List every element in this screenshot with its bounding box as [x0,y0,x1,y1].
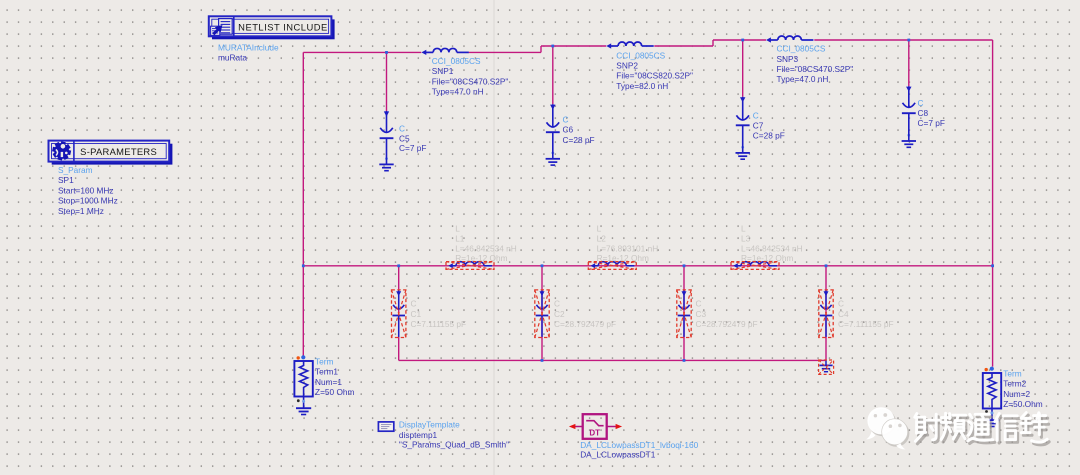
L1 deactivation cross [446,262,494,270]
wire C1 branch vertical [398,266,400,361]
svg-text:C7: C7 [753,121,764,131]
node junction 1 [385,51,388,54]
wire C4 branch vertical [825,266,827,361]
C4 deactivation cross [819,290,833,338]
svg-text:NETLIST INCLUDE: NETLIST INCLUDE [238,22,328,33]
C1 deactivation cross [392,290,406,338]
svg-text:Step=1 MHz: Step=1 MHz [58,206,104,216]
capacitor C8 labels [918,98,945,128]
display-template icon [378,422,393,431]
svg-text:L: L [741,223,746,233]
C3 deactivation cross [677,290,691,338]
ground C8 [902,141,916,147]
node Term2 pin dots [985,367,994,415]
svg-text:C=7.111155 pF: C=7.111155 pF [838,319,894,329]
node junction 2 [551,45,554,48]
wire C2 branch vertical [541,266,543,361]
DT block labels [580,440,698,459]
svg-text:C4: C4 [838,309,849,319]
svg-text:L=46.842534 nH: L=46.842534 nH [455,243,517,253]
wire C6 branch [552,46,554,104]
svg-text:C=28 pF: C=28 pF [753,131,785,141]
termination Term2 labels [1003,368,1043,409]
svg-text:C=28 pF: C=28 pF [563,135,595,145]
svg-text:C5: C5 [399,133,410,143]
svg-text:C: C [563,114,569,124]
svg-text:Num=2: Num=2 [1003,389,1030,399]
svg-text:L: L [597,223,602,233]
capacitor C5 symbol [380,111,394,164]
ground Term2 [984,420,999,426]
netlist-include controller block [209,16,335,39]
svg-text:R=1e-12 Ohm: R=1e-12 Ohm [741,253,793,263]
svg-text:SNP2: SNP2 [616,61,638,71]
node junction 7 [541,264,544,267]
netlist-include icon [211,19,233,36]
node junction 5 [302,264,305,267]
capacitor C4 (deactivated) symbol [820,290,833,337]
ground C6 [546,159,560,165]
display-template labels [399,420,509,450]
node junction 9 [825,264,828,267]
inductor L3 labels (deactivated) [741,223,803,263]
termination Term1 labels [315,356,355,397]
capacitor C1 (deactivated) symbol [392,290,405,337]
faint window splitter line [493,0,495,475]
svg-text:Term1: Term1 [315,367,338,377]
svg-text:S_Param: S_Param [58,165,93,175]
svg-text:L2: L2 [597,233,607,243]
termination Term2 symbol [983,373,1001,420]
svg-text:MURATAInclude: MURATAInclude [218,42,279,52]
svg-text:File="08CS470.S2P": File="08CS470.S2P" [777,64,854,74]
inductor SNP2 symbol [606,42,653,49]
svg-text:C: C [696,299,702,309]
ground C5 [379,164,393,170]
wire C8 branch [908,40,910,86]
svg-text:C: C [554,299,560,309]
wire step 2 [712,40,714,46]
s-parameters controller block [49,141,173,165]
node cap pin dot 2 [551,152,554,155]
wire top rail segment 1b [469,51,541,53]
svg-text:L=46.842534 nH: L=46.842534 nH [741,243,803,253]
wire top rail segment 3b [814,39,992,41]
svg-text:L: L [455,223,460,233]
capacitor C2 (deactivated) symbol [536,290,549,337]
wire right vertical (top rail to Term2) [992,40,994,367]
wire C7 branch [742,40,744,97]
svg-text:C=28.792479 pF: C=28.792479 pF [696,319,758,329]
node Term1 pin dots [297,355,306,403]
node junction 4 [907,39,910,42]
termination Term1 symbol [294,361,312,408]
svg-text:C: C [753,111,759,121]
svg-text:Num=1: Num=1 [315,377,342,387]
inductor L1 labels (deactivated) [455,223,517,263]
svg-text:R=1e-12 Ohm: R=1e-12 Ohm [455,253,507,263]
ground at bottom rail (deactivated) [819,360,832,371]
wire step 1 [540,46,542,52]
svg-text:Z=50 Ohm: Z=50 Ohm [1003,399,1043,409]
svg-text:DA_LCLowpassDT1: DA_LCLowpassDT1 [580,449,656,459]
svg-text:Stop=1000 MHz: Stop=1000 MHz [58,196,118,206]
svg-text:C6: C6 [563,125,574,135]
svg-text:SNP1: SNP1 [432,66,454,76]
ground C7 [736,153,750,159]
capacitor C3 (deactivated) symbol [678,290,691,337]
inductor SNP2 labels [616,50,693,91]
inductor SNP3 symbol [766,36,813,43]
svg-text:L1: L1 [455,233,465,243]
watermark chinese text 射频通信链 (drawn strokes) [915,413,1049,445]
capacitor C4 labels (deactivated) [838,299,894,330]
svg-text:DisplayTemplate: DisplayTemplate [399,420,460,430]
svg-text:L=76.893101 nH: L=76.893101 nH [597,243,659,253]
svg-text:"S_Params_Quad_dB_Smith": "S_Params_Quad_dB_Smith" [399,440,509,450]
node junction 11 [541,359,544,362]
svg-text:CCI_0805CS: CCI_0805CS [432,56,481,66]
svg-text:C: C [838,299,844,309]
wire middle rail [303,265,992,267]
node cap pin dot 1 [385,157,388,160]
capacitor C5 labels [399,124,426,154]
svg-text:C2: C2 [554,309,565,319]
s-parameters gear icon [52,141,71,160]
node cap pin dot 4 [907,134,910,137]
svg-text:muRata: muRata [218,52,247,62]
svg-text:C=7 pF: C=7 pF [399,143,426,153]
op-amp-like DT design block DA_LCLowpassDT1 [569,414,622,439]
svg-text:File="08CS820.S2P": File="08CS820.S2P" [616,71,693,81]
watermark wechat logo [866,407,909,449]
node junction 8 [683,264,686,267]
capacitor C1 labels (deactivated) [411,299,467,330]
wire bottom rail [399,359,826,361]
inductor SNP1 labels [432,56,509,97]
svg-text:Z=50 Ohm: Z=50 Ohm [315,387,355,397]
svg-text:L3: L3 [741,233,751,243]
svg-text:DT: DT [589,428,600,437]
svg-text:Type=47.0 nH: Type=47.0 nH [432,87,484,97]
inductor SNP1 symbol [421,48,468,55]
capacitor C6 labels [563,114,595,145]
svg-text:C3: C3 [696,309,707,319]
svg-text:CCI_0805CS: CCI_0805CS [777,44,826,54]
inductor L2 (deactivated) symbol [591,262,635,269]
svg-text:C: C [411,299,417,309]
node junction 6 [397,264,400,267]
svg-text:SNP3: SNP3 [777,54,799,64]
node junction 12 [683,359,686,362]
node junction 3 [741,39,744,42]
svg-text:Start=100 MHz: Start=100 MHz [58,185,114,195]
svg-text:S-PARAMETERS: S-PARAMETERS [80,146,157,157]
svg-text:C: C [918,98,924,108]
capacitor C6 symbol [546,104,560,159]
svg-text:C: C [399,124,405,134]
svg-text:Term2: Term2 [1003,379,1026,389]
svg-text:Type=82.0 nH: Type=82.0 nH [616,81,668,91]
node junction 10 [991,264,994,267]
L3 deactivation cross [731,262,779,270]
svg-text:disptemp1: disptemp1 [399,430,438,440]
svg-text:Term: Term [315,356,334,366]
capacitor C7 symbol [736,97,750,153]
capacitor C2 labels (deactivated) [554,299,616,330]
bottom ground deactivation cross [819,360,834,374]
node cap pin dot 3 [741,146,744,149]
svg-text:C1: C1 [411,309,422,319]
wire C3 branch vertical [683,266,685,361]
svg-text:Term: Term [1003,368,1022,378]
svg-text:C=28.792479 pF: C=28.792479 pF [554,319,616,329]
svg-text:CCI_0805CS: CCI_0805CS [616,50,665,60]
svg-text:C=7.111155 pF: C=7.111155 pF [411,319,467,329]
capacitor C8 symbol [902,86,916,141]
svg-text:C=7 pF: C=7 pF [918,118,945,128]
C2 deactivation cross [535,290,549,338]
wire top rail segment 3 [713,39,766,41]
inductor L2 labels (deactivated) [597,223,659,263]
svg-text:SP1: SP1 [58,175,74,185]
inductor SNP3 labels [777,44,854,85]
wire left vertical (Term1 to top rail) [302,52,304,355]
L2 deactivation cross [588,262,636,270]
wire top rail segment 1 [303,51,421,53]
capacitor C3 labels (deactivated) [696,299,758,330]
wire C5 branch [386,52,388,111]
svg-text:R=1e-12 Ohm: R=1e-12 Ohm [597,253,649,263]
inductor L1 (deactivated) symbol [448,262,492,269]
svg-text:Type=47.0 nH: Type=47.0 nH [777,74,829,84]
wire top rail segment 2b [654,45,713,47]
inductor L3 (deactivated) symbol [733,262,777,269]
wire top rail segment 2 [541,45,606,47]
ground Term1 [296,408,311,414]
svg-text:C8: C8 [918,108,929,118]
svg-text:File="08CS470.S2P": File="08CS470.S2P" [432,76,509,86]
capacitor C7 labels [753,111,785,141]
